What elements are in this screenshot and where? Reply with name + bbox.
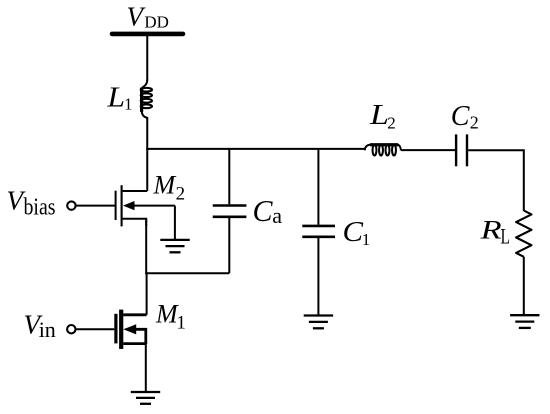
svg-text:2: 2 bbox=[176, 183, 186, 204]
label Ca bbox=[253, 193, 283, 228]
wire RL to ground bbox=[523, 257, 525, 315]
capacitor C1 branch wire top bbox=[317, 149, 319, 225]
label M2 bbox=[153, 171, 186, 205]
label C2 bbox=[451, 101, 479, 133]
ground at M2 bulk bbox=[160, 206, 189, 253]
svg-text:C: C bbox=[253, 193, 273, 228]
ground below RL bbox=[510, 315, 539, 328]
label VDD bbox=[127, 1, 169, 31]
inductor L1 bbox=[141, 80, 152, 120]
svg-text:M: M bbox=[155, 300, 179, 329]
capacitor C1 bbox=[302, 226, 335, 316]
svg-text:L: L bbox=[106, 83, 125, 114]
svg-text:1: 1 bbox=[176, 312, 186, 333]
label C1 bbox=[343, 216, 371, 249]
transistor M1 (bold) bbox=[116, 310, 147, 349]
svg-text:2: 2 bbox=[387, 114, 396, 133]
supply rail VDD bar bbox=[112, 32, 183, 37]
svg-text:1: 1 bbox=[124, 94, 133, 113]
wire C2 to RL bbox=[468, 150, 524, 211]
inductor L2 bbox=[365, 145, 401, 156]
transistor M2 bbox=[116, 185, 175, 226]
svg-text:in: in bbox=[39, 317, 56, 342]
svg-text:2: 2 bbox=[470, 113, 479, 133]
wire M1 drain bbox=[146, 273, 148, 315]
ground below M1 bbox=[131, 392, 160, 404]
svg-text:1: 1 bbox=[362, 230, 371, 249]
wire L1 to drain node bbox=[146, 119, 148, 192]
svg-text:R: R bbox=[479, 216, 501, 245]
resistor RL bbox=[516, 211, 531, 257]
label L2 bbox=[369, 100, 396, 133]
svg-text:C: C bbox=[343, 216, 364, 248]
wire L2 to C2 bbox=[401, 149, 455, 151]
node: top wire from drain node to L2 bbox=[146, 148, 365, 150]
svg-text:DD: DD bbox=[144, 12, 169, 31]
label Vin bbox=[24, 310, 56, 342]
svg-text:a: a bbox=[272, 203, 282, 228]
label Vbias bbox=[7, 186, 56, 221]
input terminal Vbias bbox=[67, 201, 115, 209]
capacitor Ca bbox=[213, 149, 247, 273]
wire M1 source to ground bbox=[145, 344, 147, 392]
label RL bbox=[479, 216, 510, 249]
svg-text:L: L bbox=[369, 100, 389, 131]
node wire: mid wire to Ca bbox=[145, 272, 229, 274]
svg-text:bias: bias bbox=[24, 195, 56, 221]
svg-text:M: M bbox=[153, 171, 177, 200]
label L1 bbox=[106, 83, 132, 114]
wire VDD to L1 bbox=[146, 34, 148, 81]
capacitor C2 bbox=[456, 134, 467, 166]
ground below C1 bbox=[304, 316, 333, 329]
label M1 bbox=[155, 300, 186, 334]
svg-text:C: C bbox=[451, 101, 470, 132]
svg-text:L: L bbox=[501, 224, 511, 249]
wire M2 source down bbox=[145, 219, 147, 275]
input terminal Vin bbox=[67, 325, 114, 333]
